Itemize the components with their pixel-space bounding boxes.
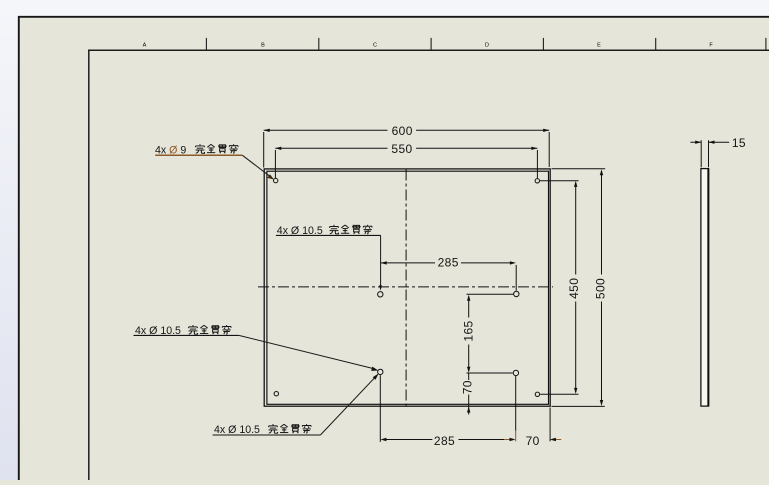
zone tick 2 [318,38,320,50]
arrow 285 bottom left [380,438,386,441]
dimension 450 line [575,183,577,393]
side view right edge thick [707,169,709,407]
arrow 15 left [695,141,701,144]
label L2 CJK 完全贯穿 [330,225,373,234]
dimension 165 line [468,297,470,372]
arrow 550 right [531,147,537,150]
label L3 leader arrowhead [371,367,378,371]
arrow 165 bottom (also 70 top) [467,367,470,373]
dimension 70 horizontal arrow brown tail [556,439,562,441]
dimension 450 bottom extension [540,393,578,395]
dimension 550 left extension [274,150,276,178]
zone tick 1 [205,38,207,50]
svg-text:550: 550 [391,142,412,156]
hole low-left (Ø10.5) [378,369,383,374]
hole bottom-left (Ø9) [274,392,278,396]
arrow 500 top [600,169,603,175]
arrow 600 left [264,129,270,132]
dimension 15 left extension [700,140,702,167]
dimension 550 right extension [536,150,538,178]
paper top edge line [18,16,769,18]
svg-text:D: D [485,43,489,49]
label L2 leader arrowhead [379,285,382,290]
dimension 285 top right extension [515,265,517,291]
hole top-left (Ø9) [274,178,278,182]
dimension 285 bottom line [382,439,504,441]
plate front view inner outline [267,171,549,404]
arrow 550 left [275,147,281,150]
label L4 CJK 完全贯穿 [269,424,312,433]
side view plate outline [701,169,709,407]
svg-text:70: 70 [526,434,540,448]
zone tick 4 [542,38,544,50]
svg-text:285: 285 [438,256,459,270]
svg-text:500: 500 [593,278,607,299]
hole mid-left (Ø10.5) [378,292,383,297]
dimension 550 line [275,147,537,149]
svg-text:165: 165 [461,320,475,341]
dimension 165 top extension [467,293,514,295]
dimension 285 bottom left extension [379,375,381,442]
dimension 285 top line [381,262,515,264]
dimension 165 bottom extension [467,372,513,374]
svg-text:C: C [373,43,377,49]
arrow 70 horizontal (outside pointing left) [550,438,556,441]
vertical centerline [405,170,407,408]
label L1 underline (brown) [155,154,242,156]
label L1 leader arrowhead [267,174,274,179]
sheet inner frame top line [88,49,769,51]
hole mid-right (Ø10.5) [514,291,519,296]
svg-text:70: 70 [461,380,475,394]
arrow 450 top [574,181,577,187]
svg-text:A: A [143,43,147,49]
dimension 500 bottom extension [552,405,605,407]
zone tick 6 [765,38,767,50]
arrow 165 top [467,295,470,301]
dimension 70 horizontal right extension [549,408,551,442]
dimension 500 line [601,171,603,405]
label L1 CJK 完全贯穿 [196,144,239,153]
label L4 leader [320,376,376,435]
label L2 leader (vertical) [380,235,382,285]
svg-text:600: 600 [392,124,413,138]
plate front view outer outline [264,169,550,406]
dimension 285 bottom right arrow brown tail [504,439,510,441]
arrow 15 right [709,141,715,144]
label L3 CJK 完全贯穿 [189,325,232,334]
hole bottom-right (Ø9) [535,392,539,396]
label L1 leader [242,155,270,177]
label L4 underline [213,434,321,436]
arrow 285 top right [510,261,516,264]
arrow 70 vertical bottom (outside pointing up) [467,407,470,413]
dimension 70 vertical line segments [468,373,470,415]
dimension 15 right extension [708,140,710,167]
svg-text:4x Ø 10.5: 4x Ø 10.5 [214,424,260,436]
zone tick 5 [655,38,657,50]
arrow 285 bottom right [510,438,516,441]
hole low-right (Ø10.5) [513,370,518,375]
dimension 450 top extension [540,180,579,182]
svg-text:285: 285 [434,434,455,448]
arrow 600 right [543,129,549,132]
arrow 500 bottom [600,400,603,406]
dimension 500 top extension [552,168,606,170]
paper left edge line [18,16,20,480]
svg-text:4x Ø 9: 4x Ø 9 [155,144,186,156]
horizontal centerline [258,286,553,288]
hole top-right (Ø9) [535,179,539,183]
sheet inner frame left line [88,50,90,480]
label L4 leader arrowhead [373,373,379,379]
label L2 underline [276,234,381,236]
dimension 600 line [264,129,550,131]
svg-text:B: B [261,43,265,49]
dimension 15 line [690,141,729,143]
svg-text:450: 450 [567,278,581,299]
dimension 600 right extension [548,132,550,167]
dimension 285 bottom right extension (brown lower part) [515,431,517,442]
label L3 leader [239,335,375,369]
svg-text:15: 15 [732,136,746,150]
dimension 600 left extension [263,132,265,168]
arrow 450 bottom [574,388,577,394]
svg-text:E: E [597,43,601,49]
dimension 285 bottom right extension (black upper part) [515,376,517,431]
zone tick 3 [430,38,432,50]
label L3 underline [134,334,239,336]
arrow 285 top left [381,261,387,264]
